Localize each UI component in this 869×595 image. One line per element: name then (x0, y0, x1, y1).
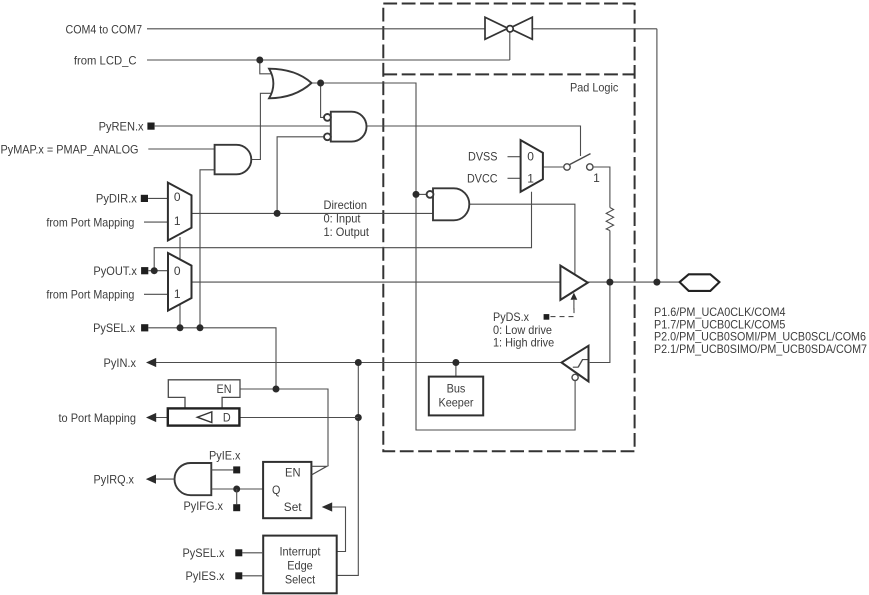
svg-text:Bus: Bus (447, 382, 466, 396)
square PyIFG.x (233, 504, 240, 511)
wire DVSS stub (508, 156, 521, 158)
svg-text:from LCD_C: from LCD_C (74, 54, 137, 68)
svg-text:Set: Set (284, 500, 302, 514)
pad hexagon (680, 274, 720, 291)
wire PyIN.x (156, 362, 562, 364)
mux M3 (DVSS/DVCC pull select) (521, 140, 543, 192)
wire NAND top input stub (416, 193, 427, 195)
node pad NAND input junction (413, 191, 420, 198)
square PySEL.x (interrupt) (235, 549, 242, 556)
svg-text:0: 0 (174, 190, 181, 204)
svg-text:PyIFG.x: PyIFG.x (184, 499, 224, 513)
schmitt trigger U6 (562, 346, 589, 382)
svg-text:1: Output: 1: Output (324, 225, 370, 239)
flip-flop U9 (263, 462, 311, 518)
svg-text:PyMAP.x = PMAP_ANALOG: PyMAP.x = PMAP_ANALOG (1, 142, 139, 156)
transmission gate (analog switch) (485, 17, 532, 39)
svg-text:PySEL.x: PySEL.x (93, 321, 135, 335)
svg-text:from Port Mapping: from Port Mapping (46, 288, 134, 302)
svg-text:Q: Q (272, 483, 280, 497)
square PyREN.x (147, 123, 154, 130)
square PySEL.x (141, 324, 148, 331)
wire mux select through (behind PyOUT mux) (179, 237, 181, 328)
node PySEL junction A (177, 324, 184, 331)
arrow PyIRQ.x (146, 475, 156, 484)
node PyOUT junction (151, 267, 158, 274)
wire PyOUT mux output to buffer (192, 281, 561, 283)
D latch box (168, 408, 240, 425)
wire PyREN.x (155, 125, 331, 127)
svg-text:to Port Mapping: to Port Mapping (59, 411, 137, 425)
wire PyOUT.x (148, 270, 168, 272)
wire EN latch output to flipflop clock (240, 389, 328, 466)
node EN line junction (273, 386, 280, 393)
square PyDS.x (544, 314, 550, 320)
nand U2 (3-input, bubbled in1/in3) (324, 112, 367, 142)
svg-text:PyIN.x: PyIN.x (104, 356, 137, 370)
wire PySEL to AND input (200, 170, 215, 328)
svg-text:1: High drive: 1: High drive (493, 336, 554, 350)
wire Set loop from interrupt edge select (332, 507, 345, 552)
svg-text:0: Low drive: 0: Low drive (493, 323, 552, 337)
wire from LCD_C (147, 32, 510, 60)
wire LCD to OR top input (260, 60, 271, 74)
wire from Port Mapping 2 (144, 293, 168, 295)
node bus keeper junction (452, 359, 459, 366)
wire Direction branch to NAND bottom bubble (277, 137, 324, 214)
square PyIE.x (233, 466, 240, 473)
svg-text:Keeper: Keeper (439, 396, 474, 410)
svg-text:PyIRQ.x: PyIRQ.x (94, 472, 135, 486)
svg-text:EN: EN (285, 466, 301, 480)
svg-text:1: 1 (174, 214, 181, 228)
wire PyMAP (148, 148, 214, 150)
wire from Port Mapping 1 (144, 221, 168, 223)
svg-text:from Port Mapping: from Port Mapping (46, 215, 134, 229)
svg-text:0: 0 (527, 149, 534, 163)
D latch clock triangle (197, 412, 212, 423)
node LCD junction (256, 57, 263, 64)
wire PyDIR.x (148, 197, 168, 199)
wire PyIFG stub (236, 489, 238, 504)
wire pull mux output to switch (543, 166, 564, 168)
drive strength arrow into buffer (571, 293, 578, 300)
pad NAND U4 (2-input, bubbled top input) (427, 188, 470, 220)
outer dashed box (383, 4, 634, 452)
node Direction junction (274, 210, 281, 217)
wire switch to resistor and schmitt input (590, 167, 610, 363)
wire PyIN branch to bus keeper (455, 363, 457, 377)
mux M2 (PyOUT) (168, 253, 192, 311)
svg-text:1: 1 (174, 287, 181, 301)
node PyIN junction (355, 359, 362, 366)
flip-flop clock triangle (312, 466, 327, 475)
wire Q to and-gate (211, 488, 263, 490)
svg-text:DVSS: DVSS (468, 150, 498, 164)
square PyOUT.x (141, 267, 148, 274)
wire OR output to pad NAND / schmitt enable (312, 83, 576, 430)
svg-text:P2.1/PM_UCB0SIMO/PM_UCB0SDA/CO: P2.1/PM_UCB0SIMO/PM_UCB0SDA/COM7 (654, 342, 867, 356)
svg-text:Edge: Edge (287, 559, 313, 573)
wire COM4 line (147, 29, 657, 282)
square PyDIR.x (141, 195, 148, 202)
arrow Set input (322, 502, 333, 511)
wire PyIES input (242, 575, 263, 577)
node pad junction A (606, 279, 613, 286)
svg-text:PyIES.x: PyIES.x (186, 569, 225, 583)
bus keeper U7 (429, 377, 483, 416)
wire buffer output to pad (588, 281, 680, 283)
mux M1 (PyDIR) (168, 183, 192, 241)
wire pad NAND output to buffer enable (469, 204, 575, 274)
wire PyIE input (211, 469, 233, 471)
svg-text:EN: EN (217, 382, 232, 396)
wire Direction (192, 212, 434, 214)
svg-text:1: 1 (593, 171, 600, 185)
svg-text:COM4 to COM7: COM4 to COM7 (66, 22, 143, 36)
node PySEL junction B (197, 324, 204, 331)
wire to Port Mapping (156, 417, 358, 419)
square PyIES.x (235, 572, 242, 579)
wire PyIN branch down to interrupt edge select (337, 363, 359, 576)
wire PyOUT branch to pull mux select (154, 192, 531, 271)
interrupt and-gate U8 (mirrored) (175, 463, 212, 495)
node to-port-mapping junction (355, 414, 362, 421)
svg-text:0: 0 (174, 264, 181, 278)
svg-text:PySEL.x: PySEL.x (183, 546, 225, 560)
wire PySEL input (242, 552, 263, 554)
inner dashed divider (Pad Logic top) (383, 73, 634, 75)
svg-text:PyIE.x: PyIE.x (209, 448, 241, 462)
svg-text:DVCC: DVCC (467, 172, 498, 186)
svg-text:Interrupt: Interrupt (280, 545, 322, 559)
svg-text:1: 1 (527, 172, 534, 186)
wire DVCC stub (508, 177, 521, 179)
wire IRQ output (156, 478, 175, 480)
svg-text:Select: Select (285, 573, 316, 587)
or-gate U1 (269, 69, 311, 99)
interrupt edge select box U10 (263, 536, 337, 594)
and-gate U3 (PyMAP) (215, 145, 252, 175)
svg-text:PyREN.x: PyREN.x (99, 119, 144, 133)
wire PySEL.x (148, 328, 276, 389)
svg-text:0: Input: 0: Input (324, 212, 362, 226)
arrow PyIN.x (146, 358, 156, 367)
node PyIFG junction (233, 486, 240, 493)
switch S1 (564, 154, 593, 171)
svg-text:PyDIR.x: PyDIR.x (96, 192, 137, 206)
EN latch staple (168, 380, 240, 409)
wire AND output to OR bottom input (251, 93, 271, 159)
arrow to Port Mapping (146, 413, 156, 422)
svg-text:PyOUT.x: PyOUT.x (93, 264, 137, 278)
schmitt hysteresis glyph (573, 360, 588, 368)
svg-text:Direction: Direction (324, 198, 368, 212)
resistor R1 (606, 208, 613, 231)
schmitt enable bubble (572, 374, 578, 380)
wire NAND output to switch control (367, 126, 581, 156)
svg-text:Pad Logic: Pad Logic (570, 81, 618, 95)
wire OR output branch to NAND bubble (321, 83, 324, 117)
svg-text:D: D (223, 410, 231, 424)
output buffer U5 (560, 266, 587, 300)
dashed PyDS link (551, 308, 575, 317)
node OR output junction (317, 80, 324, 87)
node pad junction B (653, 279, 660, 286)
